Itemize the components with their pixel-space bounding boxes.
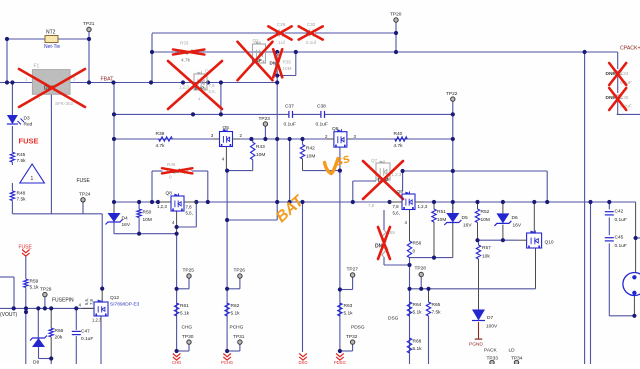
svg-text:DSG: DSG bbox=[388, 316, 399, 322]
svg-text:1,2,3: 1,2,3 bbox=[392, 172, 402, 177]
svg-text:R45: R45 bbox=[17, 152, 26, 158]
svg-text:R39: R39 bbox=[156, 131, 165, 137]
svg-text:0.1uF: 0.1uF bbox=[615, 243, 627, 249]
svg-text:10M: 10M bbox=[481, 217, 490, 223]
svg-text:100V: 100V bbox=[486, 324, 498, 330]
svg-text:R68: R68 bbox=[413, 339, 422, 345]
svg-text:16V: 16V bbox=[513, 223, 522, 229]
svg-text:D7: D7 bbox=[487, 315, 493, 321]
svg-text:PACK: PACK bbox=[484, 348, 498, 354]
svg-text:Q9: Q9 bbox=[397, 189, 404, 195]
svg-text:CHG: CHG bbox=[172, 360, 181, 364]
svg-text:0: 0 bbox=[169, 175, 172, 180]
svg-text:10M: 10M bbox=[437, 217, 446, 223]
svg-text:FBAT: FBAT bbox=[101, 77, 115, 83]
svg-text:TP31: TP31 bbox=[233, 334, 245, 340]
svg-text:Q12: Q12 bbox=[110, 295, 119, 301]
svg-text:R52: R52 bbox=[481, 209, 490, 215]
svg-text:5.1k: 5.1k bbox=[344, 311, 354, 317]
svg-text:TP32: TP32 bbox=[346, 334, 358, 340]
svg-text:CPACK+: CPACK+ bbox=[620, 46, 640, 52]
svg-text:1,2,3: 1,2,3 bbox=[179, 85, 189, 90]
svg-text:R51: R51 bbox=[437, 209, 446, 215]
svg-text:C42: C42 bbox=[615, 209, 624, 215]
svg-text:7,8: 7,8 bbox=[368, 203, 375, 208]
svg-text:C29: C29 bbox=[277, 22, 286, 27]
svg-text:SI7898DP-E3: SI7898DP-E3 bbox=[110, 302, 140, 308]
svg-text:10M: 10M bbox=[283, 66, 292, 71]
svg-text:R48: R48 bbox=[17, 191, 26, 197]
svg-text:CHG: CHG bbox=[182, 325, 193, 331]
svg-text:16V: 16V bbox=[122, 222, 131, 228]
svg-text:5.1k: 5.1k bbox=[180, 311, 190, 317]
svg-text:7,8: 7,8 bbox=[186, 205, 193, 210]
svg-text:D5: D5 bbox=[462, 215, 468, 221]
svg-text:7,8: 7,8 bbox=[393, 204, 400, 209]
svg-text:C37: C37 bbox=[285, 104, 294, 110]
svg-text:TP24: TP24 bbox=[79, 192, 91, 198]
svg-text:R66: R66 bbox=[55, 328, 64, 334]
svg-text:PDSG: PDSG bbox=[351, 325, 365, 331]
svg-text:R46: R46 bbox=[167, 162, 176, 167]
svg-text:SFK-302: SFK-302 bbox=[55, 101, 74, 106]
svg-text:7.5k: 7.5k bbox=[17, 158, 27, 164]
svg-text:R64: R64 bbox=[413, 302, 422, 308]
svg-text:5.1k: 5.1k bbox=[30, 285, 40, 291]
svg-text:D8: D8 bbox=[33, 360, 39, 365]
svg-text:10M: 10M bbox=[256, 152, 265, 158]
svg-text:C45: C45 bbox=[615, 235, 624, 241]
svg-text:TP27: TP27 bbox=[347, 267, 359, 273]
svg-text:C38: C38 bbox=[317, 104, 326, 110]
svg-text:R40: R40 bbox=[394, 131, 403, 137]
svg-text:PCHG: PCHG bbox=[230, 325, 244, 331]
svg-text:F1: F1 bbox=[34, 64, 40, 70]
svg-text:Q8: Q8 bbox=[166, 191, 173, 197]
svg-text:7.5k: 7.5k bbox=[432, 310, 442, 316]
svg-text:TP26: TP26 bbox=[234, 268, 246, 274]
svg-text:TP25: TP25 bbox=[183, 268, 195, 274]
svg-text:16V: 16V bbox=[463, 223, 472, 229]
svg-text:FUSE: FUSE bbox=[77, 178, 91, 184]
svg-text:FUSE: FUSE bbox=[19, 137, 39, 146]
svg-text:LD: LD bbox=[509, 348, 516, 354]
svg-text:4.7k: 4.7k bbox=[156, 143, 166, 149]
svg-text:PCHG: PCHG bbox=[221, 360, 233, 364]
svg-text:20k: 20k bbox=[55, 335, 63, 341]
svg-text:1,2,3: 1,2,3 bbox=[92, 318, 102, 323]
svg-text:5.1k: 5.1k bbox=[231, 311, 241, 317]
svg-text:Q10: Q10 bbox=[545, 240, 554, 246]
svg-text:TP21: TP21 bbox=[83, 21, 95, 27]
svg-text:Q7: Q7 bbox=[371, 158, 378, 163]
svg-text:TP28: TP28 bbox=[415, 266, 427, 272]
svg-text:R43: R43 bbox=[256, 144, 265, 150]
svg-text:TP23: TP23 bbox=[259, 116, 271, 122]
svg-text:Q6: Q6 bbox=[332, 126, 339, 132]
svg-text:NT2: NT2 bbox=[46, 30, 56, 36]
svg-text:0.1uF: 0.1uF bbox=[284, 122, 296, 128]
svg-text:R65: R65 bbox=[432, 302, 441, 308]
svg-text:4.7k: 4.7k bbox=[181, 58, 191, 64]
svg-text:FUSEPIN: FUSEPIN bbox=[52, 298, 74, 304]
svg-text:C47: C47 bbox=[81, 329, 90, 335]
svg-text:TP30: TP30 bbox=[182, 334, 194, 340]
svg-text:R62: R62 bbox=[231, 303, 240, 309]
svg-text:7.5k: 7.5k bbox=[17, 197, 27, 203]
svg-text:R57: R57 bbox=[482, 245, 491, 251]
svg-text:5,6,: 5,6, bbox=[186, 211, 193, 216]
svg-text:C30: C30 bbox=[307, 22, 316, 27]
svg-text:R42: R42 bbox=[306, 146, 315, 152]
svg-text:R56: R56 bbox=[413, 241, 422, 247]
svg-text:1: 1 bbox=[31, 176, 34, 182]
svg-text:Red: Red bbox=[24, 122, 33, 128]
svg-text:5.1k: 5.1k bbox=[413, 310, 423, 316]
svg-text:R50: R50 bbox=[143, 210, 152, 216]
svg-text:0.1uF: 0.1uF bbox=[615, 217, 627, 223]
svg-text:Q5: Q5 bbox=[223, 125, 230, 131]
svg-text:(VOUT): (VOUT) bbox=[0, 312, 18, 318]
svg-text:R35: R35 bbox=[283, 60, 292, 65]
svg-text:0.1uf: 0.1uf bbox=[306, 40, 317, 45]
svg-text:10M: 10M bbox=[143, 217, 152, 223]
svg-text:5.1k: 5.1k bbox=[413, 346, 423, 352]
svg-text:0: 0 bbox=[413, 249, 416, 255]
svg-text:TP22: TP22 bbox=[446, 91, 458, 97]
svg-text:1,2,3: 1,2,3 bbox=[418, 204, 428, 209]
svg-text:1,2,3: 1,2,3 bbox=[157, 204, 167, 209]
svg-text:PDSG: PDSG bbox=[334, 360, 346, 364]
svg-text:R61: R61 bbox=[180, 303, 189, 309]
svg-text:C34: C34 bbox=[620, 71, 629, 76]
svg-text:TP20: TP20 bbox=[390, 12, 402, 18]
svg-text:5,6,: 5,6, bbox=[393, 211, 400, 216]
svg-text:R33: R33 bbox=[180, 41, 189, 46]
svg-text:7,8: 7,8 bbox=[209, 83, 216, 88]
svg-text:PGND: PGND bbox=[469, 342, 483, 348]
svg-text:D6: D6 bbox=[512, 215, 518, 221]
svg-text:DSG: DSG bbox=[298, 360, 307, 364]
svg-text:7,8: 7,8 bbox=[89, 299, 94, 305]
svg-text:10M: 10M bbox=[306, 154, 315, 160]
svg-text:10k: 10k bbox=[482, 254, 490, 260]
svg-text:TP29: TP29 bbox=[40, 287, 52, 293]
svg-text:0.1uF: 0.1uF bbox=[316, 122, 328, 128]
svg-text:R63: R63 bbox=[344, 303, 353, 309]
svg-text:Net-Tie: Net-Tie bbox=[44, 44, 60, 50]
svg-text:5,6,: 5,6, bbox=[209, 89, 216, 94]
svg-text:D4: D4 bbox=[122, 216, 128, 222]
svg-text:D3: D3 bbox=[24, 116, 30, 122]
svg-text:Q2: Q2 bbox=[253, 38, 260, 43]
svg-text:R59: R59 bbox=[30, 279, 39, 285]
svg-text:4.7k: 4.7k bbox=[394, 143, 404, 149]
svg-text:.1uf: .1uf bbox=[277, 40, 285, 45]
svg-text:FUSE: FUSE bbox=[19, 245, 33, 251]
svg-text:0.1uF: 0.1uF bbox=[81, 336, 93, 342]
